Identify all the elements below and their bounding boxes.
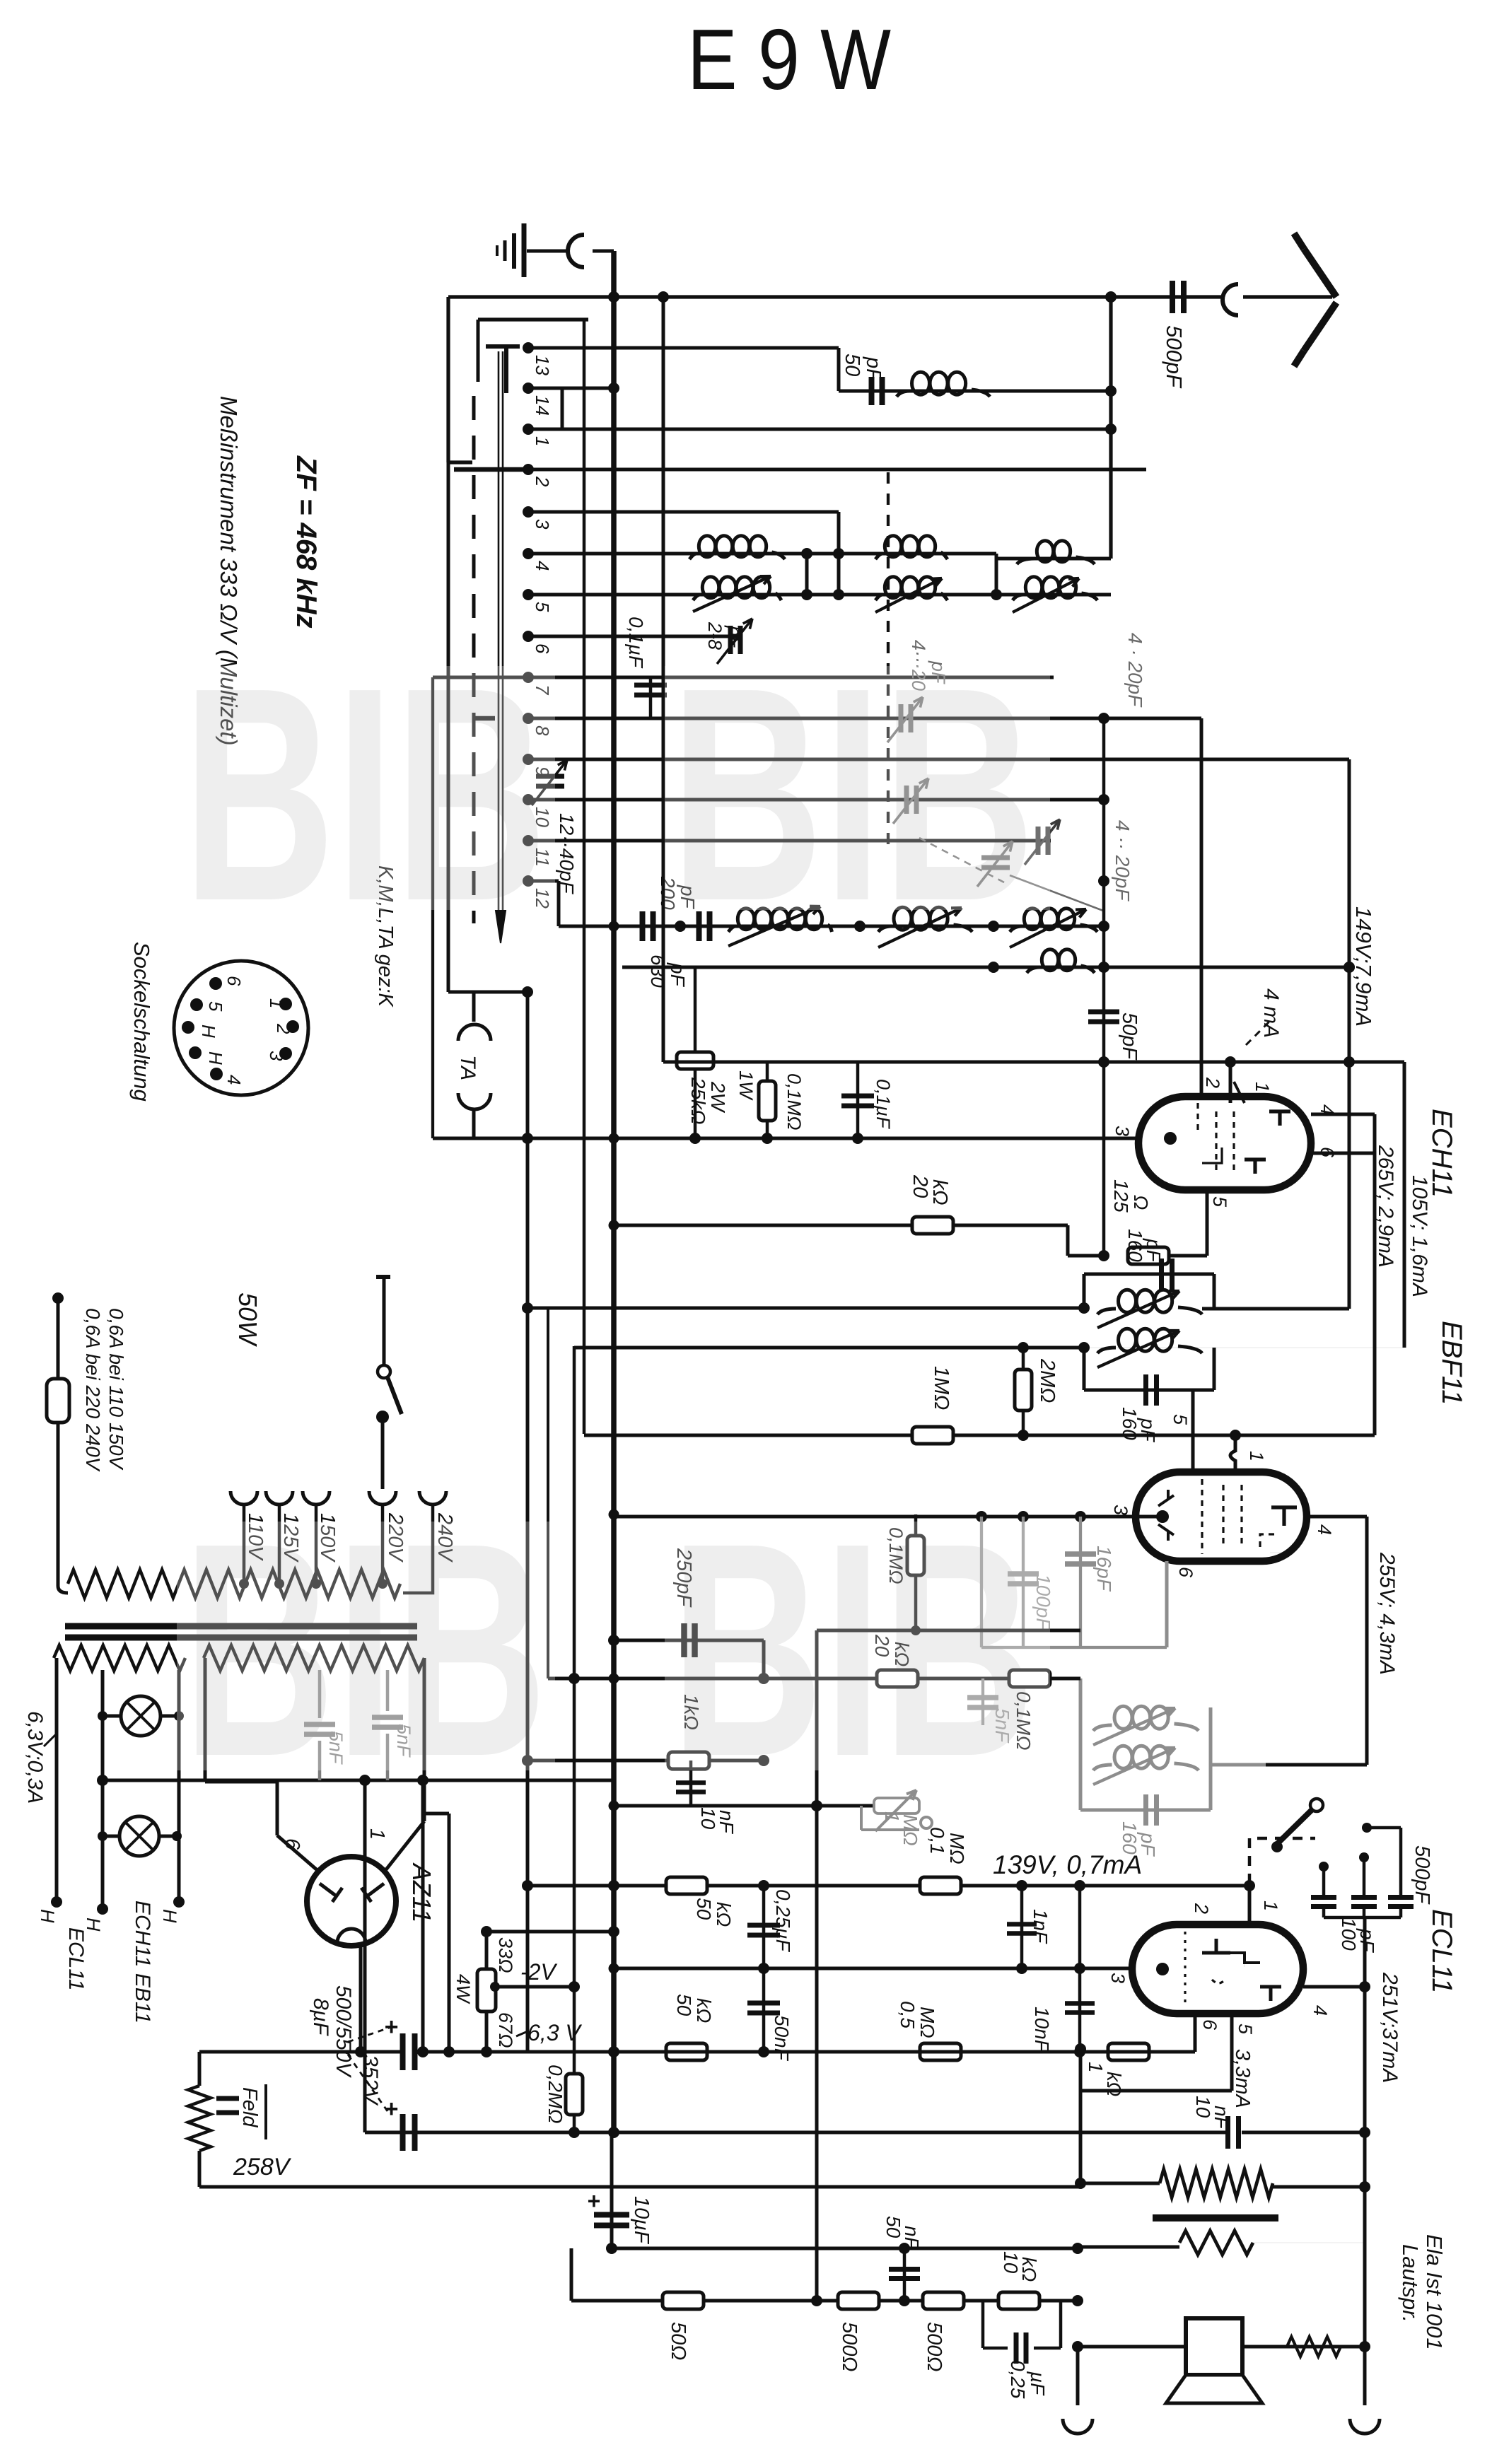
svg-text:2: 2	[532, 476, 553, 487]
svg-text:67Ω: 67Ω	[495, 2012, 516, 2048]
wire bus x746 lower	[522, 992, 533, 2052]
wire y2732	[486, 1926, 619, 1937]
wire heater mid	[83, 1670, 108, 1932]
svg-text:3: 3	[1112, 1126, 1133, 1136]
svg-text:13: 13	[532, 355, 553, 375]
resistor 0,2MOhm	[566, 2074, 583, 2115]
wire rail contact 2	[454, 468, 1146, 472]
wire heater right	[159, 1670, 185, 1923]
capacitor 1nF	[1007, 1886, 1037, 1968]
svg-text:1: 1	[1260, 1900, 1281, 1911]
resistor 50 Ohm	[663, 2292, 704, 2309]
dial lamp 1	[98, 1696, 184, 1736]
tap 110V	[231, 1491, 267, 1589]
resistor 20kOhm	[912, 1217, 953, 1234]
svg-text:6: 6	[1199, 2019, 1220, 2031]
svg-text:3: 3	[266, 1051, 287, 1061]
inductor IF1 secondary (variable)	[1097, 1329, 1202, 1367]
capacitor 50pF (antenna coupling)	[869, 377, 875, 405]
label 8uF 500/550V	[309, 1985, 393, 2111]
resistor 1kOhm	[668, 1752, 709, 1769]
svg-text:5: 5	[1209, 1196, 1230, 1208]
svg-text:ECL11: ECL11	[1426, 1909, 1457, 1993]
capacitor 8uF (b)	[384, 2096, 415, 2151]
resistor 1kOhm (b)	[1080, 2043, 1167, 2060]
wire rail contact 6	[528, 635, 742, 638]
tube AZ11 pin 1 lead	[384, 1658, 424, 1872]
label 4-20pF (osc)	[919, 820, 1133, 911]
svg-text:4 ·· 20pF: 4 ·· 20pF	[1112, 820, 1133, 901]
capacitor 10nF (output)	[1228, 2116, 1371, 2149]
wire outer frame left	[448, 297, 472, 462]
switch rotor bar	[486, 346, 520, 393]
svg-text:2: 2	[1202, 1077, 1223, 1088]
svg-text:0,1: 0,1	[926, 1827, 948, 1855]
tube ECH11 pin 5	[1169, 1190, 1230, 1256]
svg-text:pF: pF	[862, 356, 885, 383]
ground connector arc	[568, 235, 584, 267]
svg-text:0,25: 0,25	[1007, 2360, 1029, 2399]
svg-text:0,5: 0,5	[897, 2001, 919, 2028]
wire 265V riser	[1084, 1062, 1404, 1348]
resistor 10kOhm (b)	[998, 2292, 1039, 2309]
loudspeaker	[1166, 2318, 1262, 2403]
wire RF bus x938	[658, 291, 669, 1062]
wire rail y3254 resistor chain	[571, 2248, 1083, 2306]
svg-text:5: 5	[1235, 2024, 1256, 2035]
svg-text:0,25µF: 0,25µF	[772, 1889, 794, 1953]
svg-text:1: 1	[532, 436, 553, 446]
wire grid rail y2145	[614, 1511, 1162, 1522]
capacitor 0,25uF	[747, 1886, 780, 1968]
wire rail contact 10	[528, 798, 1104, 802]
capacitor 160pF (IF2)	[1080, 1794, 1211, 1826]
svg-text:2: 2	[1191, 1903, 1212, 1914]
switch contact 7	[523, 672, 534, 683]
output transformer secondary	[1078, 2231, 1365, 2255]
switch contact 8	[523, 713, 534, 724]
capacitor 50pF (IF)	[1088, 967, 1119, 1256]
svg-text:kΩ: kΩ	[693, 1998, 715, 2023]
switch contact 11	[523, 835, 534, 846]
wire rail y2784	[614, 1963, 1162, 1974]
resistor 1MOhm	[912, 1427, 953, 1444]
field coil Feld	[188, 2052, 239, 2187]
resistor 0,1MOhm (d)	[907, 1514, 924, 1630]
svg-text:1: 1	[1252, 1082, 1273, 1092]
wire rail contact 9	[528, 758, 1349, 761]
switch contact 5	[523, 589, 534, 600]
svg-text:4: 4	[532, 561, 553, 571]
svg-text:0,6A bei 110 150V: 0,6A bei 110 150V	[105, 1308, 127, 1471]
capacitor 160pF (IF1b)	[1143, 1374, 1148, 1406]
resistor 0,5MOhm	[920, 2043, 961, 2060]
wire ground to main bus	[593, 251, 614, 297]
svg-text:ECL11: ECL11	[64, 1927, 88, 1991]
wire group C feed	[996, 557, 1111, 561]
wire rail contact 13	[528, 346, 839, 350]
svg-text:0,1µF: 0,1µF	[625, 617, 647, 669]
switch contact 10	[523, 794, 534, 805]
junction node contact14 rail / main bus	[562, 383, 619, 394]
tube ECL11 pin 5	[1080, 2014, 1256, 2091]
svg-text:50nF: 50nF	[771, 2015, 793, 2062]
svg-text:0,1MΩ: 0,1MΩ	[783, 1073, 805, 1131]
svg-text:ZF = 468 kHz: ZF = 468 kHz	[291, 455, 322, 628]
svg-text:630: 630	[647, 954, 669, 988]
wire rail contact 11	[528, 839, 1051, 843]
tube ECL11 pin 1	[1249, 1886, 1281, 1925]
tube ECL11 pin 6	[1167, 2014, 1220, 2052]
svg-text:12··40pF: 12··40pF	[556, 813, 578, 895]
label AZ11 pin numbers	[281, 1828, 388, 1850]
tube socket diagram	[174, 961, 308, 1095]
wire inner frame right bus x826	[583, 320, 586, 1434]
inductor feedback coil	[1027, 950, 1095, 973]
RC network 5nF b	[372, 1670, 403, 1780]
svg-text:500Ω: 500Ω	[838, 2322, 861, 2371]
svg-text:50Ω: 50Ω	[667, 2322, 689, 2360]
wire rail y1906	[574, 1342, 1084, 1353]
svg-text:251V;37mA: 251V;37mA	[1378, 1972, 1401, 2083]
capacitor 250pF	[608, 1623, 764, 1678]
svg-text:pF: pF	[1143, 1238, 1165, 1263]
wire heater left to H	[37, 1658, 62, 1923]
resistor 125 Ohm	[1128, 1247, 1169, 1264]
resistor 0,1MOhm (c)	[920, 1877, 961, 1894]
svg-text:10nF: 10nF	[1031, 2007, 1053, 2053]
svg-text:33Ω: 33Ω	[495, 1937, 516, 1973]
capacitor 100pF	[1008, 1517, 1039, 1647]
resistor 50kOhm (a)	[877, 1670, 918, 1687]
wire switch wafer dashed line	[472, 396, 476, 923]
wire HV secondary left leg	[205, 1658, 277, 1782]
antenna symbol	[1243, 233, 1336, 366]
svg-text:EBF11: EBF11	[1436, 1321, 1467, 1405]
svg-text:5: 5	[205, 1001, 226, 1012]
tube ECH11 pin 2	[1201, 718, 1223, 1097]
wire inner frame	[478, 320, 588, 382]
wire AZ11 anode feed x635	[424, 1814, 449, 2052]
switch contact 9	[523, 754, 534, 765]
wire cathode x1528	[1075, 2043, 1086, 2189]
tube ECH11 pin 3 grid	[1112, 1126, 1177, 1145]
wire TA input bottom	[433, 677, 474, 1138]
svg-text:µF: µF	[1027, 2371, 1049, 2396]
capacitor 10nF (b)	[1065, 1886, 1095, 2049]
label 6,3V 0,3A	[23, 1711, 57, 1804]
capacitor 160pF (IF1a)	[1159, 1259, 1164, 1290]
svg-text:1nF: 1nF	[1030, 1909, 1051, 1944]
wire rail contact 8	[472, 713, 1201, 724]
inductor group C upper coil	[1017, 541, 1095, 564]
svg-text:nF: nF	[716, 1810, 738, 1835]
tube EBF11	[1136, 1472, 1307, 1561]
capacitor 10nF (a)	[676, 1761, 706, 1806]
svg-text:Lautspr.: Lautspr.	[1398, 2244, 1423, 2323]
svg-text:50pF: 50pF	[1118, 1012, 1141, 1061]
tap 125V	[266, 1491, 302, 1589]
svg-text:105V; 1,6mA: 105V; 1,6mA	[1408, 1175, 1431, 1297]
svg-text:Ela Ist 1001: Ela Ist 1001	[1422, 2234, 1447, 2350]
tube ECH11 pin 1 (4mA)	[1230, 988, 1283, 1103]
wire anode rail y1502	[663, 1056, 1404, 1068]
capacitor 500pF (antenna series)	[1172, 281, 1184, 313]
svg-text:1: 1	[366, 1828, 388, 1840]
wire speaker bus x1155	[811, 1800, 822, 2301]
svg-text:4: 4	[223, 1075, 245, 1085]
tone switch	[1249, 1799, 1323, 1886]
switch contact 13	[523, 342, 534, 354]
capacitor trimmer 4-20pF (c)	[1025, 819, 1060, 865]
wire ground rail y2902	[417, 2046, 1195, 2057]
resistor 500 Ohm (a)	[838, 2292, 879, 2309]
wire heater bus y2518	[97, 1775, 614, 1786]
resistor 50kOhm (b)	[666, 1877, 707, 1894]
svg-text:500pF: 500pF	[1162, 325, 1187, 389]
fuse	[47, 1292, 69, 1593]
svg-text:H: H	[205, 1051, 226, 1065]
wire 149V riser	[1344, 759, 1355, 1309]
resistor 0,1MOhm (b)	[1009, 1670, 1050, 1687]
svg-text:4 · 20pF: 4 · 20pF	[1124, 633, 1146, 708]
inductor group A lower coil (variable)	[693, 576, 781, 612]
tube ECL11 pin 2	[1191, 1903, 1212, 1914]
svg-text:258V: 258V	[233, 2154, 292, 2180]
svg-text:6: 6	[532, 643, 553, 654]
capacitor 200pF	[640, 911, 646, 941]
inductor IF2 secondary (variable)	[1093, 1746, 1199, 1785]
svg-text:500/550V: 500/550V	[332, 1985, 355, 2078]
svg-text:2-8: 2-8	[704, 621, 725, 650]
wire NFB rail y3180	[612, 2243, 1083, 2254]
tube EBF11 pin 1	[1230, 1435, 1267, 1472]
wire RF coupling row	[839, 300, 1117, 559]
wire tone caps bottom	[1324, 1908, 1401, 1987]
svg-text:ECH11 EB11: ECH11 EB11	[131, 1900, 154, 2024]
resistor 500 Ohm (b)	[923, 2292, 964, 2309]
svg-text:2: 2	[273, 1023, 294, 1034]
capacitor 0,25uF (b)	[983, 2301, 1061, 2364]
label Lautspr Ela Ist 1001	[1398, 2234, 1447, 2350]
capacitor 0,1uF (osc)	[841, 1062, 874, 1138]
inductor oscillator coil 3 (variable)	[1010, 909, 1097, 947]
wire rail y2667 (139V)	[528, 1880, 1255, 1891]
tube EBF11 pin 3	[1110, 1505, 1169, 1523]
svg-text:pF: pF	[1356, 1928, 1378, 1954]
svg-text:MΩ: MΩ	[946, 1833, 968, 1864]
label 6,3V	[516, 2020, 582, 2045]
svg-text:+: +	[587, 2188, 600, 2214]
wire speaker line y3319	[1072, 2341, 1370, 2352]
wire rail grid y2030	[584, 1430, 1375, 1441]
inductor group B lower coil (variable)	[875, 577, 948, 612]
wire rail y1733 screen	[614, 1225, 1109, 1261]
wire ground drop x598	[417, 1780, 429, 2057]
inductor oscillator coil 1 (variable)	[728, 906, 832, 946]
svg-text:265V; 2,9mA: 265V; 2,9mA	[1374, 1145, 1397, 1268]
inductor IF2 primary (variable)	[1093, 1706, 1199, 1745]
wire bus x1561	[1098, 718, 1109, 973]
capacitor 8uF (a)	[384, 2014, 415, 2070]
switch contact 4	[523, 548, 534, 559]
wire rail contact 5	[528, 589, 1111, 600]
svg-text:50: 50	[841, 354, 863, 376]
label Feld	[238, 2084, 266, 2139]
svg-text:500Ω: 500Ω	[923, 2322, 945, 2371]
svg-text:2W: 2W	[707, 1081, 729, 1114]
capacitor trimmer 12-40pF	[532, 760, 567, 805]
wire 352V rail	[199, 2050, 402, 2053]
wire oscillator row	[559, 881, 1109, 932]
svg-text:1: 1	[266, 998, 287, 1008]
capacitor padder 4-20pF (osc)	[977, 841, 1013, 887]
svg-text:2MΩ: 2MΩ	[1036, 1358, 1059, 1403]
capacitor 500pF (tone c)	[1362, 1823, 1414, 1907]
svg-text:pF: pF	[1137, 1418, 1159, 1443]
switch contact 3	[523, 506, 534, 518]
tube AZ11 pin 6 lead	[277, 1782, 320, 1872]
tube ECH11	[1138, 1082, 1311, 1190]
wire rail contact 1	[528, 424, 1117, 435]
svg-text:6,3V;0,3A: 6,3V;0,3A	[23, 1711, 47, 1804]
svg-text:139V, 0,7mA: 139V, 0,7mA	[993, 1850, 1142, 1879]
transformer heater winding 6,3V	[54, 1645, 185, 1671]
svg-text:16pF: 16pF	[1093, 1546, 1115, 1592]
wire rail y1850 IF1 feed	[528, 1307, 1084, 1310]
svg-text:E 9 W: E 9 W	[687, 11, 891, 107]
capacitor 16pF	[1065, 1517, 1096, 1647]
svg-text:14: 14	[532, 395, 553, 416]
inductor oscillator coil 2 (variable)	[878, 907, 972, 947]
svg-text:6: 6	[281, 1838, 303, 1850]
IF1 frame	[1078, 1274, 1214, 1390]
wire TA input top	[448, 462, 533, 1022]
wire group A-B link	[807, 512, 839, 595]
svg-text:50: 50	[693, 1898, 715, 1920]
wire rail contact 4	[528, 548, 996, 559]
svg-text:4: 4	[1317, 1104, 1338, 1115]
wire AVC return y2306	[817, 1625, 1080, 1806]
switch contact 1	[523, 424, 534, 435]
wire main bus vertical	[609, 297, 619, 2138]
wire ground drop x516	[363, 1780, 367, 2132]
tube AZ11 cathode lead	[355, 1944, 366, 2057]
svg-text:5: 5	[532, 602, 553, 612]
switch contact 2	[523, 464, 534, 475]
svg-text:3: 3	[1110, 1505, 1131, 1515]
inductor group B upper coil	[875, 536, 948, 559]
svg-text:3: 3	[1107, 1973, 1129, 1983]
svg-text:1MΩ: 1MΩ	[930, 1366, 952, 1410]
wire oscillator feedback row	[622, 962, 1355, 973]
capacitor 10uF	[587, 2132, 629, 2254]
inductor group C lower coil (variable)	[1013, 577, 1097, 612]
resistor speaker series	[1287, 2337, 1341, 2357]
resistor 2MOhm	[1015, 1348, 1032, 1435]
svg-text:0,1µF: 0,1µF	[873, 1079, 894, 1129]
IF2 frame	[1080, 1678, 1211, 1810]
inductor antenna coil	[897, 372, 990, 397]
svg-text:20: 20	[909, 1174, 931, 1198]
capacitor 630pF	[697, 911, 702, 941]
wire contact14 to contact1 bracket	[528, 388, 562, 429]
svg-text:3,3mA: 3,3mA	[1231, 2049, 1254, 2108]
svg-text:kΩ: kΩ	[713, 1902, 735, 1927]
svg-text:3: 3	[532, 519, 553, 530]
svg-text:500pF: 500pF	[1411, 1845, 1433, 1905]
capacitor 0,1uF (AVC)	[634, 677, 667, 718]
svg-text:1W: 1W	[735, 1070, 757, 1101]
svg-text:6: 6	[1317, 1147, 1338, 1158]
wire IF2 to 255V	[1211, 1763, 1367, 1767]
svg-text:TA: TA	[456, 1055, 479, 1080]
wire tuning gang dashed link	[887, 472, 890, 845]
wire rail contact 3	[528, 512, 839, 554]
svg-text:4: 4	[1310, 2005, 1331, 2016]
tube ECL11 pin 3	[1107, 1963, 1169, 1983]
transformer primary winding	[68, 1570, 400, 1598]
wire bus x775	[547, 1308, 549, 1678]
resistor 33/67 Ohm 4W	[477, 1926, 574, 2052]
tap 220V	[369, 1491, 407, 1589]
svg-text:kΩ: kΩ	[1018, 2257, 1040, 2282]
tube EBF11 pin5 riser	[1170, 1390, 1193, 1472]
inductor IF1 primary (variable)	[1097, 1290, 1349, 1328]
wire rail AVC y1610	[433, 1133, 1170, 1144]
capacitor trimmer 4-20pF (a)	[887, 697, 923, 742]
svg-text:kΩ: kΩ	[928, 1179, 951, 1205]
tube AZ11	[307, 1857, 396, 1946]
svg-text:4: 4	[1314, 1524, 1335, 1535]
capacitor trimmer 2-8pF	[717, 619, 752, 664]
tube EBF11 pin 6	[1167, 1561, 1196, 1647]
tap 150V	[303, 1491, 339, 1589]
antenna connector arc	[1223, 284, 1238, 315]
svg-text:Feld: Feld	[238, 2087, 261, 2127]
svg-text:nF: nF	[901, 2226, 923, 2250]
svg-text:H: H	[37, 1909, 58, 1923]
ground symbol	[497, 223, 570, 277]
output transformer core	[1153, 2214, 1278, 2221]
switch wiper shaft	[496, 351, 506, 943]
tube ECH11 pins 4 6	[1311, 1104, 1375, 1435]
svg-text:0,6A bei 220 240V: 0,6A bei 220 240V	[82, 1308, 104, 1472]
wire speaker terminal right	[1350, 1917, 1380, 2434]
switch contact 12	[523, 875, 534, 887]
svg-text:4W: 4W	[453, 1974, 474, 2004]
transformer core	[65, 1626, 417, 1637]
svg-text:50: 50	[673, 1994, 695, 2016]
switch contact 14	[523, 383, 534, 394]
svg-text:10µF: 10µF	[630, 2196, 653, 2245]
junction node antenna / RF box	[1105, 291, 1117, 303]
wire bus x812	[569, 1346, 580, 2138]
svg-text:149V;7,9mA: 149V;7,9mA	[1351, 906, 1376, 1027]
wire speaker terminal left	[1063, 2347, 1092, 2434]
transformer HV winding	[204, 1645, 424, 1671]
capacitor 500pF (tone b)	[1351, 1852, 1377, 1907]
capacitor 50nF (a)	[747, 1968, 780, 2052]
resistor 25kOhm 2W	[677, 967, 713, 1138]
tap 240V	[403, 1491, 456, 1593]
capacitor 5nF (b)	[967, 1678, 998, 1725]
svg-text:H: H	[198, 1024, 219, 1038]
capacitor trimmer 4-20pF (b)	[893, 778, 928, 824]
wire diode return y2330	[981, 1517, 1167, 1647]
svg-text:6: 6	[1175, 1567, 1196, 1578]
svg-text:kΩ: kΩ	[1103, 2072, 1125, 2096]
